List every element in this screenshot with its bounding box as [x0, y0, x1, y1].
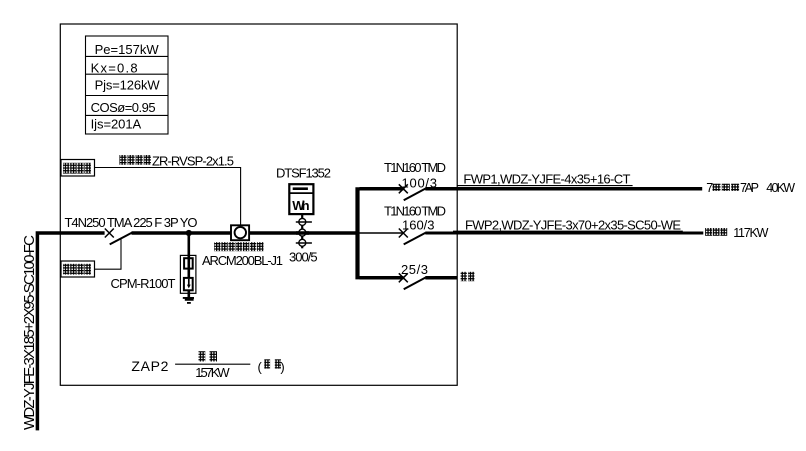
svg-text:T4N250 TMA 225 F 3P YO: T4N250 TMA 225 F 3P YO [65, 215, 198, 230]
svg-text:117KW: 117KW [733, 226, 768, 240]
svg-text:FWP1,WDZ-YJFE-4x35+16-CT: FWP1,WDZ-YJFE-4x35+16-CT [463, 172, 630, 187]
svg-text:T1N160 TMD: T1N160 TMD [384, 204, 446, 219]
svg-text:FWP2,WDZ-YJFE-3x70+2x35-SC50-W: FWP2,WDZ-YJFE-3x70+2x35-SC50-WE [465, 217, 681, 232]
svg-text:ZAP2: ZAP2 [131, 358, 168, 374]
svg-text:300/5: 300/5 [289, 250, 318, 265]
svg-text:Pe=157kW: Pe=157kW [95, 42, 160, 57]
svg-text:DTSF1352: DTSF1352 [276, 166, 331, 181]
svg-text:Kx=0.8: Kx=0.8 [91, 61, 138, 76]
svg-text:160/3: 160/3 [402, 217, 435, 232]
svg-text:7AP: 7AP [740, 181, 759, 195]
svg-text:): ) [280, 360, 284, 375]
svg-text:(: ( [258, 360, 263, 375]
svg-text:Wh: Wh [292, 198, 309, 213]
svg-text:40KW: 40KW [766, 181, 795, 195]
svg-text:WDZ-YJFE-3X185+2X95-SC100-FC: WDZ-YJFE-3X185+2X95-SC100-FC [21, 235, 38, 430]
svg-text:Pjs=126kW: Pjs=126kW [95, 78, 161, 93]
svg-text:25/3: 25/3 [401, 262, 428, 277]
svg-text:157KW: 157KW [195, 365, 230, 380]
svg-text:100/3: 100/3 [402, 176, 438, 191]
svg-text:T1N160 TMD: T1N160 TMD [384, 160, 446, 175]
svg-text:CPM-R100T: CPM-R100T [111, 276, 176, 291]
svg-text:Ijs=201A: Ijs=201A [91, 117, 142, 132]
svg-text:ARCM200BL-J1: ARCM200BL-J1 [202, 253, 283, 268]
svg-text:COSø=0.95: COSø=0.95 [91, 100, 156, 115]
svg-text:ZR-RVSP-2x1.5: ZR-RVSP-2x1.5 [152, 153, 234, 168]
svg-text:7: 7 [706, 181, 713, 195]
